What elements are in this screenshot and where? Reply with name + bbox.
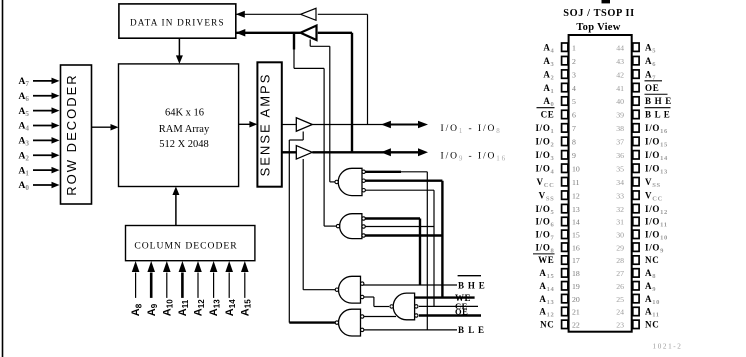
svg-text:39: 39 [616,111,624,120]
svg-text:B H E: B H E [645,96,672,106]
svg-text:42: 42 [616,70,624,79]
svg-text:Top View: Top View [576,22,620,33]
svg-text:34: 34 [616,178,624,187]
svg-text:20: 20 [572,295,580,304]
svg-text:37: 37 [616,138,624,147]
svg-text:21: 21 [572,308,580,317]
svg-text:27: 27 [616,269,624,278]
svg-text:1021-2: 1021-2 [653,343,683,351]
svg-text:10: 10 [572,164,580,173]
svg-text:31: 31 [616,218,624,227]
svg-text:SENSE AMPS: SENSE AMPS [258,73,273,177]
svg-text:B L E: B L E [645,110,671,120]
svg-text:40: 40 [616,97,624,106]
svg-text:22: 22 [572,321,580,330]
svg-text:4: 4 [572,84,576,93]
svg-text:3: 3 [572,70,576,79]
svg-text:13: 13 [572,205,580,214]
svg-text:25: 25 [616,295,624,304]
svg-text:19: 19 [572,282,580,291]
svg-text:DATA IN DRIVERS: DATA IN DRIVERS [130,18,225,28]
svg-text:9: 9 [572,151,576,160]
svg-text:14: 14 [572,218,580,227]
svg-text:36: 36 [616,151,624,160]
svg-text:1: 1 [572,43,576,52]
svg-text:29: 29 [616,243,624,252]
svg-text:5: 5 [572,97,576,106]
svg-text:8: 8 [572,138,576,147]
svg-text:512 X 2048: 512 X 2048 [159,139,209,150]
svg-text:33: 33 [616,191,624,200]
svg-text:43: 43 [616,57,624,66]
svg-text:12: 12 [572,191,580,200]
svg-text:24: 24 [616,308,624,317]
svg-text:11: 11 [572,178,580,187]
svg-text:6: 6 [572,111,576,120]
svg-text:64K x 16: 64K x 16 [165,108,204,119]
svg-text:NC: NC [645,255,659,265]
svg-text:SOJ / TSOP II: SOJ / TSOP II [563,8,634,19]
svg-text:38: 38 [616,124,624,133]
svg-text:ROW DECODER: ROW DECODER [64,73,79,195]
svg-text:18: 18 [572,269,580,278]
svg-text:30: 30 [616,231,624,240]
svg-text:28: 28 [616,256,624,265]
svg-text:16: 16 [572,243,580,252]
svg-text:2: 2 [572,57,576,66]
svg-text:WE: WE [538,255,554,265]
svg-text:35: 35 [616,164,624,173]
svg-text:B H E: B H E [458,280,486,290]
svg-text:44: 44 [616,43,624,52]
svg-text:23: 23 [616,321,624,330]
svg-text:I/O1 - I/O8: I/O1 - I/O8 [441,124,502,135]
svg-text:B L E: B L E [458,325,485,335]
svg-text:OE: OE [645,83,659,93]
svg-text:COLUMN DECODER: COLUMN DECODER [134,240,237,251]
svg-text:26: 26 [616,282,624,291]
svg-text:7: 7 [572,124,576,133]
svg-text:17: 17 [572,256,580,265]
svg-text:OE: OE [455,307,468,317]
svg-text:RAM Array: RAM Array [159,124,210,135]
svg-text:32: 32 [616,205,624,214]
svg-text:NC: NC [645,320,659,330]
svg-text:CE: CE [541,110,555,120]
svg-text:41: 41 [616,84,624,93]
svg-text:NC: NC [540,320,554,330]
svg-text:15: 15 [572,231,580,240]
